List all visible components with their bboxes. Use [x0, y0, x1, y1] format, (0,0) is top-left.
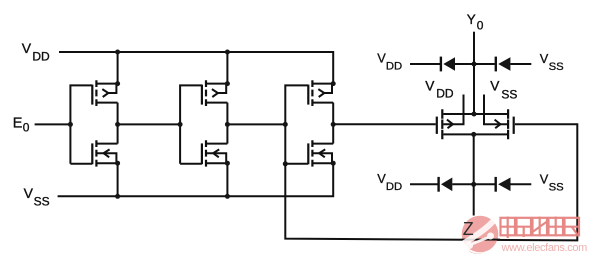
svg-text:E: E — [13, 115, 23, 131]
wire transmission gate top rail — [443, 113, 507, 115]
wire inverter 2 vertical — [226, 52, 228, 196]
watermark text dianzifashaoyou — [501, 217, 580, 239]
label VSS (top diode row) — [540, 51, 564, 73]
wire gate bracket inverter 1 — [70, 85, 92, 163]
diode D3 (bottom row, to VDD) — [410, 177, 473, 192]
svg-text:0: 0 — [23, 120, 30, 134]
watermark logo elecfans — [461, 216, 501, 254]
svg-text:DD: DD — [386, 61, 402, 73]
svg-text:V: V — [22, 40, 32, 56]
diode D4 (bottom row, to VSS) — [475, 177, 532, 192]
diode D1 (top row, to VDD) — [410, 57, 473, 72]
wire transmission gate bottom rail — [443, 133, 507, 135]
svg-text:V: V — [24, 185, 34, 201]
wire gate bracket inverter 3 — [285, 85, 308, 163]
label VSS (bottom diode row) — [540, 172, 564, 194]
svg-text:SS: SS — [34, 194, 50, 208]
svg-text:0: 0 — [477, 18, 484, 32]
svg-text:DD: DD — [436, 87, 454, 101]
wire E0 input — [35, 123, 71, 125]
svg-text:V: V — [540, 172, 549, 187]
svg-text:SS: SS — [549, 61, 565, 73]
wire inverter 1 vertical — [117, 52, 119, 196]
svg-text:SS: SS — [549, 182, 565, 194]
svg-text:www.elecfans.com: www.elecfans.com — [501, 242, 588, 254]
svg-text:DD: DD — [32, 49, 50, 63]
wire feedback: inv3 input down, along bottom, up to right gate — [285, 124, 577, 240]
svg-text:V: V — [540, 51, 549, 66]
label VSS bottom-left — [24, 185, 50, 208]
svg-text:DD: DD — [386, 181, 402, 193]
wire Z vertical — [473, 134, 475, 215]
wire Y0 vertical — [473, 32, 475, 114]
label Y0 — [467, 12, 484, 33]
wire inverter1 to inverter2 — [118, 123, 181, 125]
node inv3 dots — [283, 81, 336, 166]
wire VSS rail — [58, 163, 334, 196]
wire inverter3 output to transmission gate left gate — [333, 123, 436, 125]
transistor Q4N (transmission gate right, NMOS) — [484, 95, 514, 140]
label VDD top-left — [22, 40, 50, 63]
label VDD (bottom diode row) — [377, 171, 402, 193]
label VDD (top diode row) — [377, 51, 402, 73]
transistor Q2P (PMOS, inverter 2) — [202, 80, 228, 106]
wire inverter2 to inverter3 — [227, 123, 285, 125]
transistor Q2N (NMOS, inverter 2) — [180, 140, 227, 166]
wire VDD rail — [59, 52, 333, 84]
transistor Q1P (PMOS, inverter 1) — [92, 80, 117, 106]
label VSS (transmission gate) — [490, 78, 517, 101]
node inv1 dots — [68, 50, 120, 199]
wire inverter 3 vertical — [332, 103, 334, 144]
label VDD (transmission gate) — [425, 78, 454, 100]
transistor Q3N (NMOS, inverter 3) — [285, 140, 333, 166]
transistor Q1N (NMOS, inverter 1) — [70, 140, 117, 166]
wire bottom feedback (overdraw through logo) — [462, 239, 501, 241]
svg-text:V: V — [425, 78, 435, 93]
label E0 — [13, 115, 30, 134]
transistor Q3P (PMOS, inverter 3) — [308, 80, 333, 106]
svg-text:V: V — [490, 78, 500, 93]
wire gate bracket inverter 2 — [180, 85, 202, 163]
diode D2 (top row, to VSS) — [475, 57, 531, 72]
svg-text:Z: Z — [463, 219, 474, 239]
node inv2 dots — [178, 50, 230, 199]
transistor Q4P (transmission gate left, PMOS) — [437, 95, 464, 140]
svg-text:Y: Y — [467, 12, 476, 27]
node TG dots — [471, 62, 476, 187]
svg-text:SS: SS — [501, 88, 517, 102]
